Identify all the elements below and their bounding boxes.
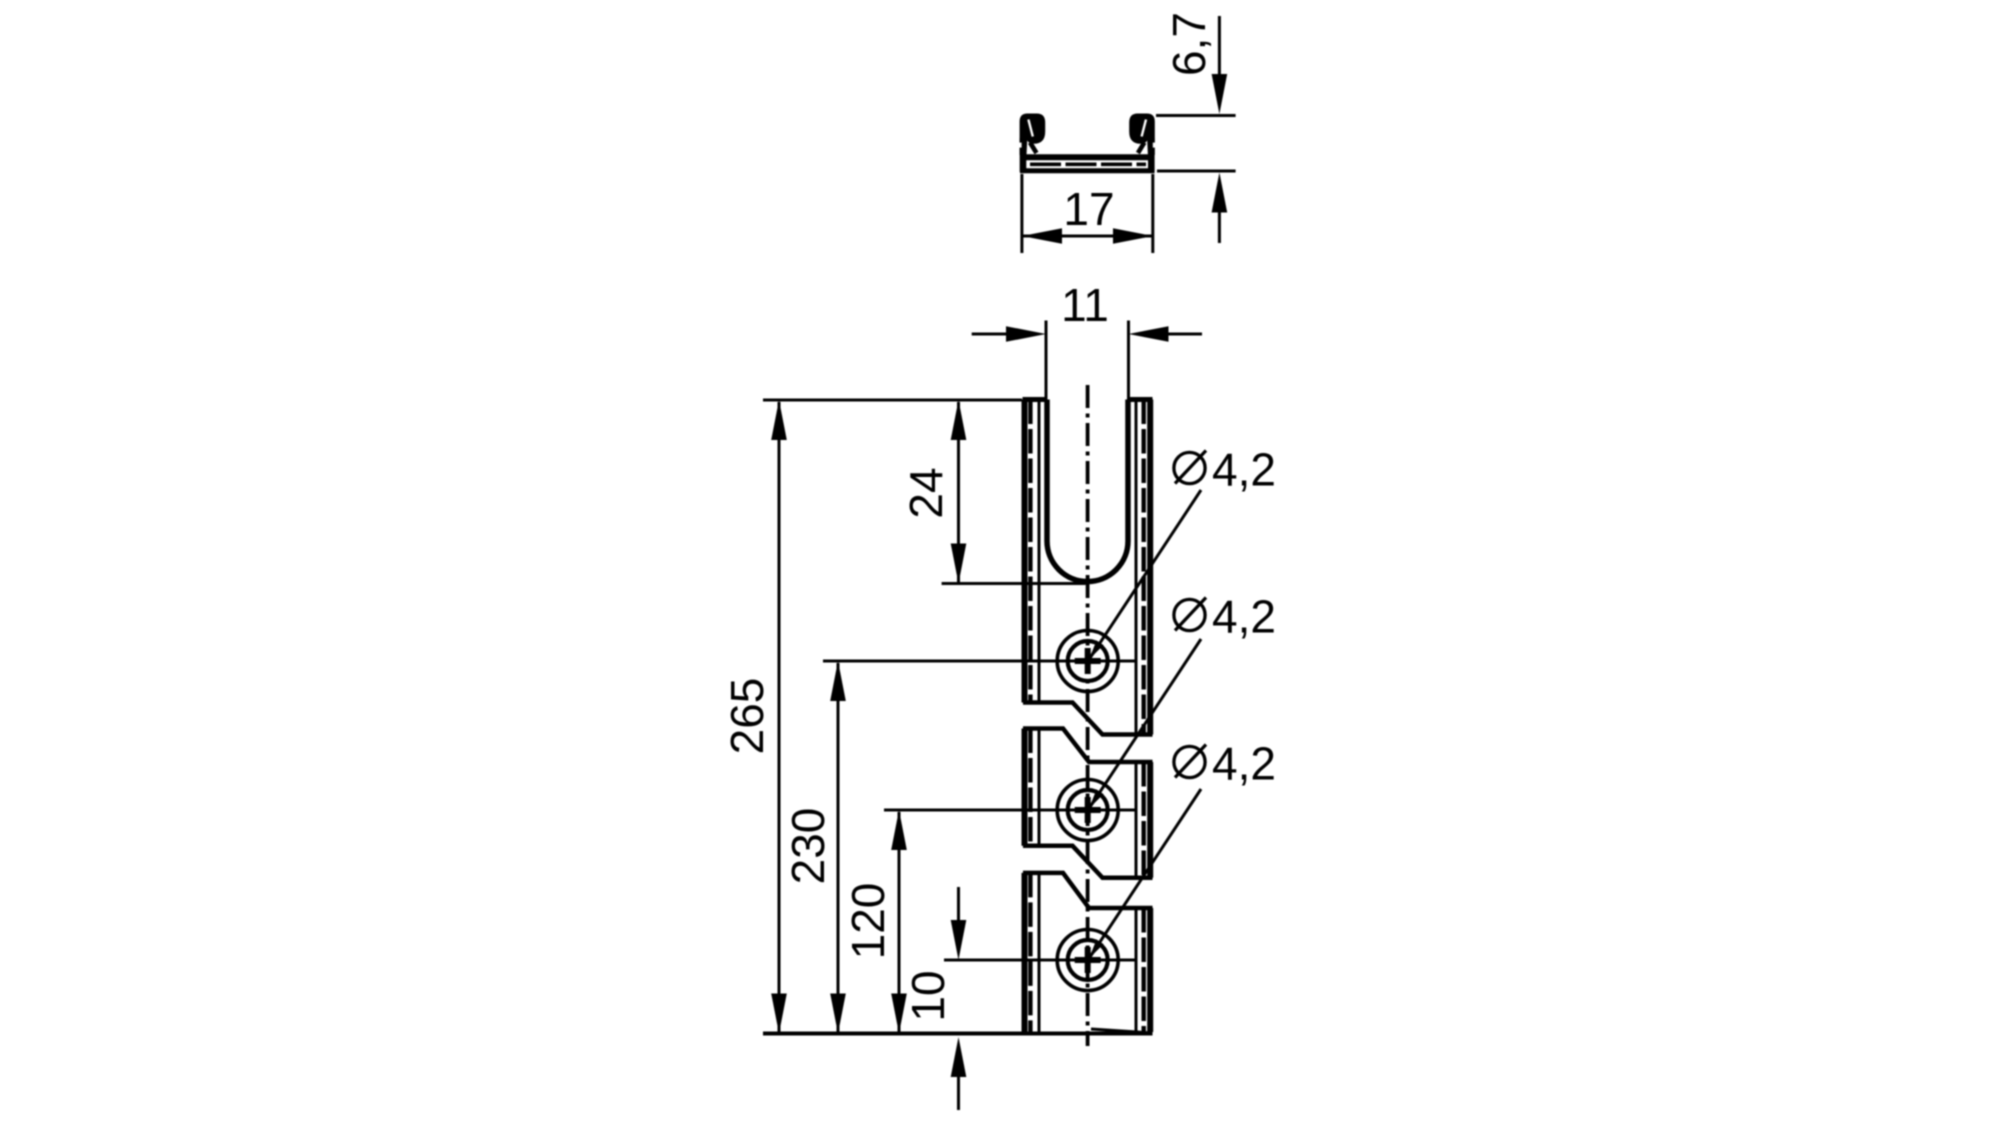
svg-text:4,2: 4,2 <box>1212 591 1276 643</box>
hole 1 circles <box>1057 631 1118 692</box>
dim 10 lower line + arrow up <box>957 1075 960 1110</box>
dim 11 extension right <box>1127 321 1130 401</box>
dim 11 right line + arrow left <box>1166 333 1202 336</box>
U-slot bottom arc <box>1047 541 1128 582</box>
leader 1 <box>1088 490 1201 661</box>
profile hidden dashed line in floor <box>1030 163 1146 167</box>
break 1 line 2 <box>1023 729 1153 763</box>
svg-text:10: 10 <box>902 970 954 1021</box>
U-slot right edge <box>1125 400 1131 542</box>
right wall hidden dashed line <box>1141 400 1145 735</box>
dim 6,7 extension top <box>1156 114 1236 117</box>
rail bottom edge <box>763 1032 1153 1036</box>
profile outer floor <box>1020 168 1155 173</box>
dim 120 line + arrows <box>898 812 901 1032</box>
leader 2 <box>1088 639 1201 810</box>
left wall outer (3 segments) <box>1022 400 1028 703</box>
hole 3 circles <box>1057 930 1118 991</box>
U-slot left edge <box>1044 400 1050 542</box>
dim 265 line + arrows <box>778 402 781 1032</box>
right wall inner thin line <box>1135 400 1138 735</box>
dim 6,7 line lower + arrow up <box>1218 210 1221 243</box>
svg-text:265: 265 <box>721 678 773 755</box>
hole 2 center horizontal line <box>884 809 1137 812</box>
svg-text:120: 120 <box>842 883 894 960</box>
dim 230 line + arrows <box>837 663 840 1032</box>
dim 11 left line + arrow right <box>972 333 1008 336</box>
svg-text:24: 24 <box>900 467 952 518</box>
dim 17 extension left <box>1020 174 1023 253</box>
dim 11 extension left <box>1045 321 1048 401</box>
leader 3 label <box>1174 738 1276 790</box>
svg-text:4,2: 4,2 <box>1212 738 1276 790</box>
hole 2 circles <box>1057 780 1118 841</box>
svg-text:230: 230 <box>782 808 834 885</box>
hole 3 center cross <box>1075 957 1101 963</box>
profile right wall <box>1148 138 1155 172</box>
dim 24 bottom extension <box>942 582 1086 585</box>
profile left wall <box>1020 138 1027 172</box>
svg-text:6,7: 6,7 <box>1163 12 1215 76</box>
dim 265 top extension <box>763 399 1022 402</box>
hole 2 center cross <box>1075 807 1101 813</box>
svg-text:4,2: 4,2 <box>1212 444 1276 496</box>
dim 17 line + outward arrows <box>1022 235 1153 238</box>
break 2 line 2 <box>1023 873 1153 908</box>
svg-text:17: 17 <box>1063 183 1114 235</box>
right wall outer (3 segments) <box>1147 400 1153 735</box>
break 1 line 1 <box>1023 703 1153 735</box>
leader 2 label <box>1174 591 1276 643</box>
left wall inner thin line <box>1038 400 1041 703</box>
dim 10 upper line + arrow down <box>957 887 960 922</box>
dim 6,7 line upper + arrow down <box>1218 16 1221 78</box>
center line (dash-dot) <box>1086 385 1090 1046</box>
dim 17 extension right <box>1151 174 1154 253</box>
hole 1 center cross <box>1075 658 1101 664</box>
dim 6,7 extension bottom <box>1157 170 1236 173</box>
profile left lip <box>1020 114 1046 156</box>
svg-text:11: 11 <box>1061 279 1109 331</box>
leader 1 label <box>1174 444 1276 496</box>
break 2 line 1 <box>1023 846 1153 878</box>
hole 3 center horizontal line <box>944 959 1137 962</box>
hole 1 center horizontal line <box>823 660 1137 663</box>
rail top edge <box>1023 397 1048 402</box>
profile right lip <box>1129 114 1155 156</box>
leader 3 <box>1088 789 1201 960</box>
left wall hidden dashed line <box>1028 400 1032 703</box>
dim 24 line + arrows <box>957 402 960 582</box>
profile inner floor <box>1025 154 1150 160</box>
rail bottom slanted cut edge <box>1091 1029 1153 1033</box>
